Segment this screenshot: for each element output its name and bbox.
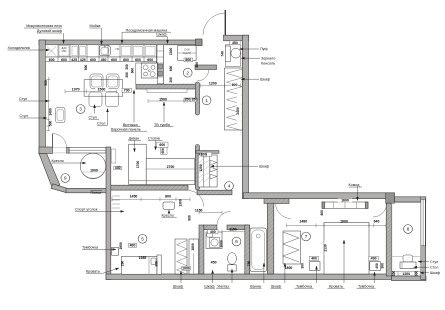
room circle 2 bbox=[183, 68, 192, 77]
bath6 washer square bbox=[210, 238, 220, 248]
oven/microwave cell inner bbox=[59, 46, 69, 56]
svg-text:800: 800 bbox=[185, 58, 191, 62]
wall: room2/vestibule horizontal bbox=[195, 65, 217, 70]
svg-text:300: 300 bbox=[392, 271, 396, 277]
leader bbox=[30, 100, 49, 102]
wall: room7/room8 divider bbox=[386, 203, 391, 276]
svg-text:Консоль: Консоль bbox=[261, 62, 275, 66]
svg-text:Комод: Комод bbox=[349, 183, 361, 187]
dim box: room7 nightstand right 490 bbox=[369, 256, 379, 260]
svg-text:1200: 1200 bbox=[199, 164, 203, 172]
svg-text:Вытяжка: Вытяжка bbox=[123, 123, 139, 127]
dim box: washer 600 bbox=[184, 58, 193, 62]
wardrobe room1 (right wall) bbox=[225, 68, 243, 130]
svg-text:СВЧ: СВЧ bbox=[62, 50, 67, 53]
leader bbox=[134, 140, 136, 152]
wall: bottom exterior (rooms 5,6,bath,7) bbox=[106, 274, 392, 280]
wall: balcony diagonal (shallow) bbox=[51, 184, 67, 193]
svg-text:400: 400 bbox=[311, 257, 317, 261]
chair top-left bbox=[90, 74, 103, 89]
svg-text:750: 750 bbox=[247, 261, 251, 267]
bed room5 pillow bbox=[151, 258, 156, 265]
washer/dryer closet room2 bbox=[178, 46, 197, 61]
wall: bathroom6 top (w/ door opening) bbox=[204, 225, 217, 230]
svg-text:740: 740 bbox=[220, 51, 224, 57]
кресло small (room5 top) bbox=[163, 202, 175, 209]
sofa seat section bbox=[146, 159, 195, 185]
svg-text:1150: 1150 bbox=[229, 228, 237, 232]
dim row: TV wall bbox=[148, 100, 184, 102]
wardrobe2 room5 bbox=[189, 239, 199, 274]
svg-text:1600: 1600 bbox=[341, 199, 349, 203]
nightstand room7 left bbox=[310, 262, 321, 271]
svg-text:2400: 2400 bbox=[236, 107, 240, 115]
counter cell inner details bbox=[72, 47, 78, 56]
window: balcony window band bbox=[69, 148, 106, 154]
svg-text:600: 600 bbox=[111, 58, 117, 62]
sofa seat cushion line bbox=[146, 180, 195, 182]
wall: kitchen/balcony wall left block bbox=[39, 147, 53, 154]
sink (Мойка) bbox=[100, 46, 111, 56]
leader bbox=[103, 268, 119, 273]
bed room5 headboard bbox=[157, 255, 161, 274]
door: entrance leaf bbox=[224, 10, 226, 35]
svg-text:450: 450 bbox=[232, 41, 238, 45]
svg-text:Столик: Столик bbox=[148, 137, 160, 141]
svg-text:600: 600 bbox=[61, 58, 67, 62]
svg-text:Стул: Стул bbox=[430, 260, 438, 264]
wardrobe hanger zigzag room5 bbox=[177, 241, 188, 275]
wall: corridor bottom (rooms7 top) bbox=[244, 193, 387, 199]
hob block bbox=[141, 63, 157, 78]
svg-text:490: 490 bbox=[371, 257, 377, 261]
door: room5 door arc bbox=[189, 191, 204, 207]
svg-text:1: 1 bbox=[205, 98, 208, 103]
dim row: kitchen table bbox=[65, 91, 117, 93]
svg-text:2700: 2700 bbox=[167, 165, 175, 169]
svg-text:Зеркало: Зеркало bbox=[261, 56, 275, 60]
sink inner bbox=[101, 47, 109, 54]
wall: right exterior (vestibule/corridor) bbox=[242, 35, 248, 198]
room circle 3 bbox=[76, 105, 85, 114]
svg-text:Стул: Стул bbox=[20, 114, 28, 118]
svg-text:Мойка: Мойка bbox=[90, 24, 102, 28]
svg-text:Шкаф: Шкаф bbox=[259, 164, 269, 168]
svg-text:Тумбочка: Тумбочка bbox=[296, 284, 313, 288]
svg-text:3: 3 bbox=[79, 107, 82, 112]
svg-text:Пуф: Пуф bbox=[260, 47, 268, 51]
svg-text:700: 700 bbox=[124, 89, 130, 93]
leader: to oven cell bbox=[63, 33, 65, 44]
svg-text:ГМ: ГМ bbox=[116, 48, 119, 51]
svg-text:1950: 1950 bbox=[119, 242, 123, 250]
room8 desk bbox=[400, 262, 416, 269]
room8 chair bbox=[403, 255, 413, 262]
svg-text:Шкаф: Шкаф bbox=[271, 284, 281, 288]
wall: left exterior bbox=[39, 40, 45, 154]
nightstand room5 bbox=[112, 247, 119, 255]
leader: to hood bbox=[133, 90, 135, 123]
room circle 5 bbox=[138, 234, 147, 243]
leader bbox=[30, 117, 47, 119]
chair left near wall bbox=[56, 108, 66, 123]
leader: to sink bbox=[101, 28, 103, 45]
leader bbox=[101, 210, 124, 212]
kitchen counter cell separators bbox=[58, 45, 144, 57]
svg-text:1300: 1300 bbox=[169, 48, 173, 56]
leader bbox=[168, 210, 170, 213]
wall: partition corridor1/living lower bbox=[195, 145, 199, 191]
svg-text:600: 600 bbox=[90, 58, 96, 62]
room8 low zone line bbox=[392, 255, 421, 257]
bathtub inner bbox=[252, 230, 265, 270]
svg-text:300: 300 bbox=[44, 80, 48, 86]
svg-text:290: 290 bbox=[120, 261, 124, 267]
room circle 1 bbox=[202, 96, 211, 105]
dim row: bath 1150 bbox=[222, 231, 245, 233]
svg-text:300: 300 bbox=[125, 64, 129, 70]
svg-text:400: 400 bbox=[210, 230, 216, 234]
dim: corridor cabinet boxes bbox=[201, 152, 212, 156]
bath6 sink small bbox=[207, 233, 213, 237]
svg-text:1450: 1450 bbox=[130, 195, 138, 199]
wall: balcony diagonal (steep) bbox=[39, 154, 60, 189]
radiator left wall bbox=[111, 149, 116, 163]
komod inner bbox=[334, 202, 357, 208]
bottom labels row bbox=[173, 240, 376, 288]
leader bbox=[241, 57, 260, 59]
door: room8 door arc bbox=[373, 203, 387, 217]
svg-text:Варочная панель: Варочная панель bbox=[111, 127, 141, 131]
svg-text:1500: 1500 bbox=[159, 97, 167, 101]
svg-text:300: 300 bbox=[154, 261, 158, 267]
bed room5 blanket line bbox=[148, 256, 150, 274]
svg-text:1700: 1700 bbox=[136, 161, 140, 169]
bed room5 bbox=[122, 256, 158, 274]
svg-text:400: 400 bbox=[130, 244, 136, 248]
svg-text:450: 450 bbox=[101, 58, 107, 62]
dim: sofa 2700 line bbox=[146, 168, 195, 170]
leader: to kitchen cabinet bbox=[167, 36, 169, 43]
bath6 washer circle bbox=[211, 239, 218, 246]
room8 desk inner bbox=[401, 262, 403, 269]
svg-text:430: 430 bbox=[115, 166, 121, 170]
fridge symbol X bbox=[47, 47, 56, 56]
wall: balcony bottom bbox=[66, 188, 111, 193]
svg-text:Кресло: Кресло bbox=[52, 159, 64, 163]
sofa chaise cushion line bbox=[129, 180, 147, 182]
svg-text:600: 600 bbox=[49, 58, 55, 62]
dim row: room7 top bbox=[287, 224, 387, 226]
wall: top wall end pilaster at entry bbox=[196, 39, 203, 46]
window: sill mid line bbox=[69, 149, 106, 151]
svg-text:640: 640 bbox=[374, 220, 380, 224]
dim: 430 box bbox=[114, 166, 122, 169]
wall: room8 bottom exterior bbox=[392, 276, 427, 281]
svg-text:350: 350 bbox=[191, 97, 197, 101]
wall: top exterior (kitchen) bbox=[39, 40, 202, 45]
wardrobe room7 (zigzag) bbox=[283, 231, 301, 264]
leader: to dishwasher bbox=[121, 32, 123, 43]
bathtub drain bbox=[256, 234, 260, 238]
leader bbox=[67, 162, 87, 164]
svg-text:1600: 1600 bbox=[340, 220, 348, 224]
svg-text:600: 600 bbox=[159, 143, 165, 147]
svg-text:425: 425 bbox=[71, 58, 77, 62]
svg-text:350: 350 bbox=[184, 97, 190, 101]
texts: appliance cells bbox=[62, 47, 191, 55]
svg-text:Кровать: Кровать bbox=[329, 284, 343, 288]
wall: tub/room7 divider bbox=[267, 203, 273, 274]
svg-text:Стол: Стол bbox=[430, 265, 438, 269]
svg-text:Суш.М: Суш.М bbox=[183, 52, 191, 55]
washer closet inner line bbox=[178, 52, 197, 54]
svg-text:1300: 1300 bbox=[179, 199, 183, 207]
svg-text:4: 4 bbox=[228, 184, 231, 189]
svg-text:1800: 1800 bbox=[285, 266, 293, 270]
svg-text:800: 800 bbox=[165, 195, 171, 199]
room circle 6 bbox=[232, 237, 241, 246]
svg-text:500: 500 bbox=[49, 121, 53, 127]
vestibule pouf circle bbox=[231, 48, 241, 58]
svg-text:Диван: Диван bbox=[129, 137, 140, 141]
svg-text:400: 400 bbox=[375, 263, 379, 269]
svg-text:Шкаф: Шкаф bbox=[260, 77, 270, 81]
room circle 7 bbox=[302, 232, 311, 241]
wall: bathroom6 top right part bbox=[227, 225, 248, 230]
dim: bath 400 box bbox=[208, 230, 219, 234]
svg-text:600: 600 bbox=[169, 66, 173, 72]
sport corner lines room5 bbox=[112, 196, 120, 208]
svg-text:1000: 1000 bbox=[90, 168, 98, 172]
svg-text:1150: 1150 bbox=[195, 208, 203, 212]
vestibule console bbox=[225, 46, 230, 62]
chair bottom-left bbox=[89, 92, 102, 107]
bed room7 bbox=[324, 223, 369, 275]
svg-text:9: 9 bbox=[64, 176, 67, 181]
wall: TV partition (kitchen/living vs hall) bbox=[136, 84, 198, 89]
svg-text:600: 600 bbox=[131, 68, 135, 74]
svg-text:1000: 1000 bbox=[182, 266, 190, 270]
leader bbox=[357, 187, 359, 201]
svg-text:900: 900 bbox=[188, 215, 192, 221]
svg-text:600: 600 bbox=[201, 153, 207, 157]
dimension texts bbox=[44, 41, 418, 276]
window: room8 window mid line bbox=[422, 199, 424, 246]
svg-text:Шкаф: Шкаф bbox=[204, 284, 214, 288]
room8 inner outline bbox=[392, 203, 421, 274]
vestibule pouf box bbox=[225, 45, 240, 67]
dim: balcony 1000 bbox=[83, 171, 104, 173]
svg-text:6: 6 bbox=[235, 239, 238, 244]
hall2 tall cabinet strip bbox=[157, 45, 164, 84]
door: balcony door arc bbox=[53, 134, 67, 148]
corridor cabinet hangers bbox=[210, 160, 217, 179]
wall: corridor bottom-left strip bbox=[197, 190, 232, 195]
svg-text:2130: 2130 bbox=[323, 244, 327, 252]
sofa chaise section bbox=[129, 144, 147, 184]
svg-text:600: 600 bbox=[161, 148, 165, 154]
svg-text:Тумбочка: Тумбочка bbox=[82, 246, 99, 250]
svg-text:Стул: Стул bbox=[89, 115, 97, 119]
svg-text:Ванна: Ванна bbox=[250, 284, 262, 288]
TV stand bbox=[147, 89, 187, 93]
svg-text:Стол: Стол bbox=[97, 122, 105, 126]
dim row: kitchen counter boxed bbox=[45, 57, 156, 62]
corridor cabinet columns bbox=[203, 155, 209, 187]
dim row: room8 bottom boxes bbox=[392, 271, 420, 276]
wall: kitchen/hall2 divider strip bbox=[157, 45, 164, 85]
window: mullion post bbox=[67, 147, 70, 153]
wall: partition corridor1/living upper bbox=[195, 82, 199, 115]
corridor cabinet hatch bbox=[199, 155, 210, 183]
svg-text:Микроволновая печь: Микроволновая печь bbox=[26, 24, 62, 28]
room circle 8 bbox=[404, 225, 413, 234]
dining table bbox=[84, 80, 123, 97]
svg-text:1480: 1480 bbox=[299, 220, 307, 224]
dim: 700 box bbox=[122, 88, 131, 92]
dim: 400 box room5 bbox=[129, 243, 137, 247]
door: entrance arc bbox=[203, 13, 225, 35]
svg-text:1985: 1985 bbox=[139, 256, 147, 260]
armchair inner bbox=[82, 172, 104, 178]
svg-text:5: 5 bbox=[141, 237, 144, 242]
svg-text:1200: 1200 bbox=[402, 272, 410, 276]
wall: bath6/tub divider bbox=[245, 225, 250, 274]
svg-text:Кресло: Кресло bbox=[162, 213, 174, 217]
sink faucet bbox=[104, 46, 106, 48]
corridor cabinet top bar bbox=[196, 151, 219, 154]
dim: left wall chain bbox=[47, 77, 49, 131]
svg-text:7: 7 bbox=[305, 234, 308, 239]
leader: to fridge bbox=[34, 49, 50, 51]
leader bbox=[241, 78, 259, 80]
leader bbox=[211, 165, 259, 167]
dim row: corridor 1150 bbox=[199, 212, 222, 214]
svg-text:1500: 1500 bbox=[98, 88, 106, 92]
komod room7 bbox=[322, 202, 368, 208]
dim row: room5 top bbox=[112, 198, 190, 200]
svg-text:Спорт уголок: Спорт уголок bbox=[75, 208, 98, 212]
leader bbox=[155, 140, 157, 150]
svg-text:2: 2 bbox=[186, 70, 189, 75]
armchair circle balcony bbox=[80, 153, 106, 179]
chair top-right bbox=[107, 74, 120, 89]
svg-text:8: 8 bbox=[407, 227, 410, 232]
wardrobe hanger zigzag room1 bbox=[226, 69, 242, 131]
wall: room5 left exterior bbox=[106, 147, 111, 280]
svg-text:Холодильник: Холодильник bbox=[8, 46, 31, 50]
svg-text:300: 300 bbox=[169, 77, 173, 83]
wall: end block between room7 and room8 bbox=[386, 193, 395, 203]
hall2 cabinet dark boxes bbox=[158, 64, 163, 69]
wardrobe room5 (zigzag) bbox=[175, 239, 187, 274]
toilet bowl bbox=[228, 253, 237, 265]
bath6 sink cabinet bbox=[206, 232, 222, 249]
svg-text:600: 600 bbox=[135, 58, 141, 62]
svg-text:1800: 1800 bbox=[191, 243, 195, 251]
svg-text:900: 900 bbox=[84, 65, 88, 71]
svg-text:ТВ тумба: ТВ тумба bbox=[154, 123, 171, 127]
svg-text:1490: 1490 bbox=[49, 108, 53, 116]
komod end caps bbox=[322, 202, 325, 208]
svg-text:600: 600 bbox=[232, 83, 238, 87]
dim texts: room7 bbox=[338, 199, 352, 203]
door: balcony door leaf bbox=[52, 134, 54, 148]
svg-text:800: 800 bbox=[195, 62, 199, 68]
leader bbox=[102, 248, 117, 250]
svg-text:300: 300 bbox=[301, 263, 305, 269]
leader: to TV stand bbox=[163, 102, 165, 123]
room circle 4 bbox=[225, 182, 234, 191]
svg-text:300: 300 bbox=[415, 271, 419, 277]
svg-text:Кровать: Кровать bbox=[86, 269, 100, 273]
hob burners bbox=[143, 65, 148, 70]
svg-text:600: 600 bbox=[320, 210, 324, 216]
svg-text:Шкаф: Шкаф bbox=[156, 33, 166, 37]
door: bathroom6 door arc bbox=[217, 212, 231, 226]
svg-text:Тумбочка: Тумбочка bbox=[358, 284, 375, 288]
window: room8 right window bbox=[421, 199, 425, 246]
svg-text:Полка: Полка bbox=[91, 191, 102, 195]
wardrobe hanger zigzag room7 bbox=[283, 232, 299, 262]
svg-text:450: 450 bbox=[211, 261, 217, 265]
wall: living/room5 partition bbox=[111, 185, 188, 190]
dim: vestibule 450 bbox=[230, 41, 240, 45]
wall: bath lobby strip bbox=[264, 199, 289, 204]
svg-text:600: 600 bbox=[123, 58, 129, 62]
wall: room8 right exterior bbox=[421, 197, 426, 279]
svg-text:1200: 1200 bbox=[209, 82, 217, 86]
door: balcony door threshold bbox=[53, 148, 67, 153]
svg-text:300: 300 bbox=[380, 263, 384, 269]
svg-text:Унитаз: Унитаз bbox=[217, 284, 229, 288]
wall: room8 top bbox=[395, 197, 426, 202]
leader bbox=[240, 48, 260, 50]
svg-text:1000: 1000 bbox=[220, 240, 224, 248]
wall: vestibule top exterior bbox=[224, 35, 249, 41]
svg-text:Шкаф: Шкаф bbox=[430, 271, 440, 275]
svg-text:Стул: Стул bbox=[19, 97, 27, 101]
dim: 1000 box room5 bbox=[182, 266, 190, 270]
svg-text:1070: 1070 bbox=[72, 88, 80, 92]
kitchen peninsula bbox=[136, 63, 158, 84]
dim boxes: 350 350 bbox=[184, 98, 197, 102]
svg-text:Духовой шкаф: Духовой шкаф bbox=[37, 29, 62, 33]
hall2 cabinet hatches bbox=[157, 51, 164, 77]
svg-text:300: 300 bbox=[125, 72, 129, 78]
toilet tank bbox=[228, 265, 236, 271]
bathtub bbox=[250, 228, 267, 272]
svg-text:Шкаф: Шкаф bbox=[173, 284, 183, 288]
chair bottom-right bbox=[106, 92, 119, 107]
room circle 9 bbox=[61, 174, 70, 183]
wardrobe2 inner bbox=[193, 239, 195, 274]
corridor cabinet bbox=[198, 155, 217, 187]
dim text backings bbox=[231, 83, 238, 87]
dim box: room7 nightstand left 400 bbox=[309, 256, 319, 260]
kitchen counter band bbox=[45, 45, 156, 57]
dim: sofa 600 boxes bbox=[157, 142, 168, 147]
door: room7 door arc bbox=[276, 204, 291, 219]
dim row: room1 top bbox=[201, 85, 241, 87]
svg-text:425: 425 bbox=[80, 58, 86, 62]
nightstand room7 right bbox=[370, 262, 381, 271]
svg-text:600: 600 bbox=[147, 58, 153, 62]
wall: bathroom6 left bbox=[199, 225, 204, 274]
door: room2-room1 arc bbox=[197, 70, 208, 81]
